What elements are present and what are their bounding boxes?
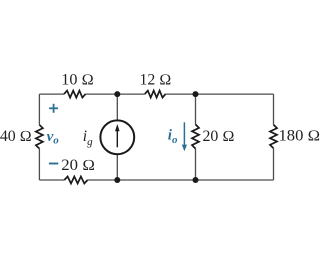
resistor R 10ohm zigzag: [64, 91, 86, 98]
node B dot top: [193, 91, 199, 97]
current source arrow shaft: [116, 130, 118, 148]
wire right vertical lower: [273, 148, 275, 180]
wire top segment node A to 12ohm: [117, 93, 145, 95]
wire top segment between 10ohm and node A: [86, 93, 118, 95]
svg-text:10 Ω: 10 Ω: [61, 72, 94, 89]
svg-text:12 Ω: 12 Ω: [140, 72, 172, 89]
plus sign of v_o: [49, 104, 58, 113]
node A dot top: [114, 91, 120, 97]
wire mid 20ohm bottom lead: [195, 149, 197, 180]
svg-text:20 Ω: 20 Ω: [203, 128, 235, 145]
wire bottom segment 20ohm to right corner: [88, 179, 274, 181]
wire mid 20ohm top lead: [195, 94, 197, 124]
wire top segment 12ohm to node B: [166, 93, 196, 95]
wire current source bottom lead: [116, 155, 118, 180]
node D dot bottom: [193, 177, 199, 183]
wire right vertical upper: [273, 94, 275, 125]
svg-text:vo: vo: [47, 129, 60, 147]
resistor R 12ohm zigzag: [145, 91, 166, 98]
i_o arrowhead: [182, 145, 187, 152]
svg-text:io: io: [168, 128, 178, 146]
wire top segment node B to right corner: [196, 93, 274, 95]
current source circle: [100, 120, 134, 154]
resistor R 20ohm middle zigzag: [192, 124, 199, 148]
wire left vertical lower: [38, 149, 40, 180]
svg-text:180 Ω: 180 Ω: [279, 128, 320, 145]
wire top segment left: [39, 93, 64, 95]
wire bottom segment left: [39, 179, 64, 181]
svg-text:ig: ig: [83, 128, 93, 148]
i_o arrow shaft: [183, 122, 185, 146]
wire current source top lead: [116, 94, 118, 120]
node C dot bottom: [114, 177, 120, 183]
resistor R 40ohm zigzag (left): [36, 125, 43, 149]
minus sign of v_o: [49, 163, 58, 165]
resistor R 180ohm zigzag (right): [270, 125, 277, 148]
svg-text:20 Ω: 20 Ω: [61, 157, 95, 174]
svg-text:40 Ω: 40 Ω: [0, 128, 32, 145]
wire left vertical upper: [38, 94, 40, 125]
resistor R 20ohm bottom zigzag: [64, 177, 87, 184]
current source arrowhead: [115, 124, 120, 131]
